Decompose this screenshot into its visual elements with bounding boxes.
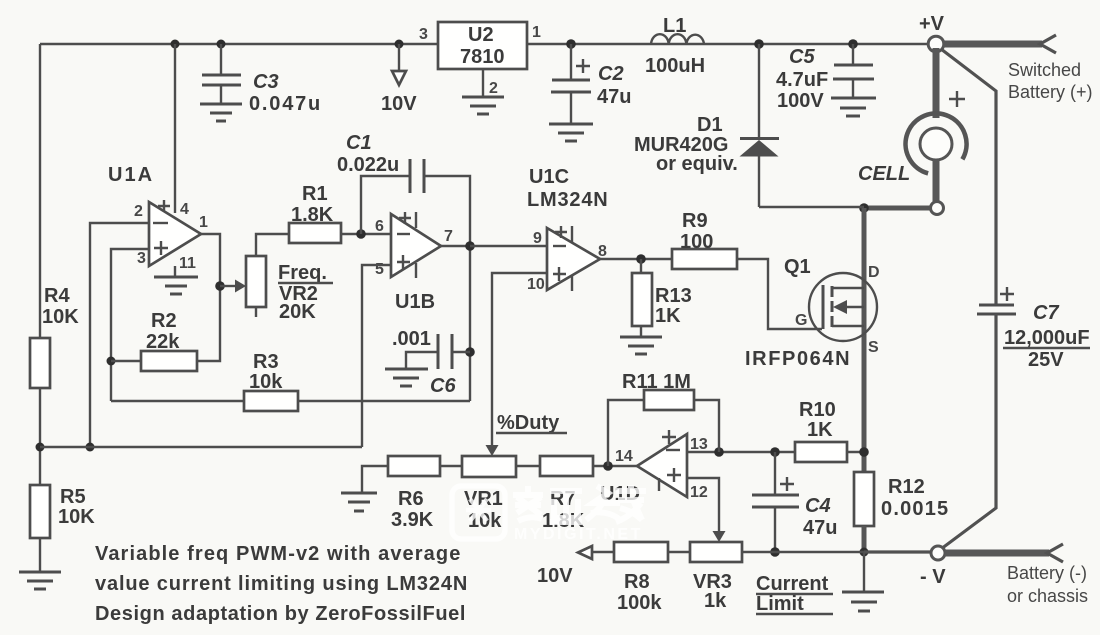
wire top 10V rail right of U2: [527, 43, 930, 45]
node junction dot C3 top: [217, 40, 226, 49]
wire thick cell bottom stub: [933, 160, 940, 202]
wire C2 top lead: [570, 44, 572, 80]
node junction C2 tap: [566, 39, 576, 49]
svg-text:4.7uF: 4.7uF: [776, 69, 828, 91]
wire C3 bottom lead: [220, 85, 222, 104]
svg-text:1: 1: [532, 24, 541, 41]
svg-text:11: 11: [179, 255, 196, 272]
wire C4 bottom lead: [774, 507, 776, 552]
svg-text:C5: C5: [789, 46, 815, 68]
svg-text:100uH: 100uH: [645, 55, 705, 77]
svg-text:R9: R9: [682, 210, 708, 232]
svg-text:or chassis: or chassis: [1007, 586, 1088, 606]
svg-text:9: 9: [533, 230, 542, 247]
resistor R13: [632, 273, 652, 326]
wire top 10V rail left: [40, 43, 438, 45]
svg-text:1K: 1K: [655, 305, 681, 327]
wire VR3 to bottom junction: [742, 551, 864, 553]
capacitor C7: [977, 305, 1016, 314]
cell outer ring: [906, 113, 967, 173]
svg-text:47u: 47u: [597, 86, 631, 108]
svg-text:R6: R6: [398, 488, 424, 510]
svg-text:3.9K: 3.9K: [391, 509, 434, 531]
node junction R11 / pin13: [714, 447, 724, 457]
node junction C5 tap: [848, 39, 858, 49]
wire R5 to ground: [39, 538, 41, 572]
wire U2 pin2 to ground: [482, 69, 484, 97]
transistor Q1 body circle: [809, 273, 877, 341]
svg-text:47u: 47u: [803, 517, 837, 539]
U1A plus input marker: [154, 241, 168, 255]
wire R3 bottom lead: [111, 400, 244, 402]
capacitor C2: [551, 80, 591, 92]
svg-text:R5: R5: [60, 486, 86, 508]
node junction Q1 drain: [859, 203, 869, 213]
wire D1 cathode lead: [758, 44, 760, 139]
wire U1A pin11 to ground: [174, 266, 176, 277]
ground below R5: [19, 572, 61, 589]
wire U1D pin12 to VR3 wiper: [687, 478, 719, 531]
svg-text:1: 1: [199, 214, 208, 231]
op-amp U1A: [149, 202, 201, 266]
node junction U1D output / R11: [603, 461, 613, 471]
wire 10V arrow stub: [398, 44, 400, 71]
wire reference rail bottom: [40, 446, 362, 448]
node junction R10 / Q1 source net: [859, 447, 869, 457]
wire R6 to VR1: [440, 465, 463, 467]
U1C plus input marker: [553, 267, 572, 291]
svg-text:1.8K: 1.8K: [291, 204, 334, 226]
svg-text:6: 6: [375, 218, 384, 235]
svg-text:value current limiting using L: value current limiting using LM324N: [95, 573, 468, 595]
svg-text:G: G: [795, 312, 807, 329]
svg-text:R1: R1: [302, 183, 328, 205]
VR3 wiper arrowhead: [713, 531, 726, 542]
svg-text:3: 3: [137, 250, 146, 267]
Q1 body arrow: [845, 306, 864, 308]
resistor R1: [289, 223, 341, 243]
ground left of R6: [341, 493, 377, 511]
svg-text:Q1: Q1: [784, 256, 811, 278]
svg-text:R12: R12: [888, 476, 925, 498]
ground below U2: [462, 97, 504, 114]
svg-text:10V: 10V: [537, 565, 573, 587]
capacitor C4: [752, 495, 799, 507]
inductor L1: [651, 34, 704, 44]
wire cell bottom to drain junction: [864, 206, 930, 211]
ground below C5: [831, 98, 876, 116]
U1A minus input marker: [153, 222, 168, 224]
U1C V+ marker: [555, 226, 572, 242]
svg-text:10K: 10K: [42, 306, 79, 328]
node junction bottom rail / R12: [860, 548, 869, 557]
wire thick battery minus stub: [945, 550, 1049, 557]
wire U1C output: [600, 258, 672, 260]
wire C5 top lead: [852, 44, 854, 65]
svg-text:+V: +V: [919, 13, 945, 35]
svg-text:C2: C2: [598, 63, 624, 85]
resistor R7: [540, 456, 593, 476]
wire R13 to ground: [640, 326, 642, 337]
wire thick switched battery stub: [943, 41, 1042, 48]
wire U1A pin2 loop to reference rail: [90, 223, 149, 447]
wire U1B output: [441, 245, 470, 247]
wire C4 top lead: [774, 452, 776, 495]
U1B minus input marker: [397, 233, 410, 235]
svg-text:1k: 1k: [704, 590, 727, 612]
svg-text:13: 13: [690, 436, 708, 453]
wire C6 left lead to ground: [406, 352, 438, 369]
wire R2 left lead: [111, 360, 141, 362]
resistor R5: [30, 485, 50, 538]
wire R12 bottom lead: [862, 526, 867, 553]
capacitor C6: [438, 334, 452, 369]
svg-text:2: 2: [134, 203, 143, 220]
ground below C3: [200, 104, 242, 121]
wire C1 right to output net: [424, 176, 470, 401]
svg-text:3: 3: [419, 26, 428, 43]
U1B V+ marker: [399, 212, 416, 228]
10V open arrow down: [392, 71, 406, 85]
wire left vertical from rail to R4: [39, 44, 41, 338]
wire U1D pin13: [687, 451, 795, 453]
svg-text:%Duty: %Duty: [497, 412, 560, 434]
Q1 gate bar: [822, 285, 825, 329]
potentiometer VR2: [246, 256, 266, 307]
wire VR1 to R7: [515, 465, 540, 467]
node junction U1A output / VR2 wiper: [215, 281, 225, 291]
svg-text:5: 5: [375, 261, 384, 278]
svg-text:1K: 1K: [807, 419, 833, 441]
wire R8 to VR3: [668, 551, 690, 553]
capacitor C1: [410, 159, 424, 193]
svg-text:R11 1M: R11 1M: [622, 371, 691, 393]
svg-text:12: 12: [690, 484, 708, 501]
svg-text:R13: R13: [655, 285, 692, 307]
potentiometer VR1: [462, 456, 516, 477]
node junction R1 / C1 / pin6: [356, 229, 366, 239]
diode D1: [740, 137, 779, 140]
op-amp U1D mirrored: [637, 434, 687, 497]
svg-text:U1C: U1C: [529, 166, 569, 188]
svg-text:U2: U2: [468, 24, 494, 46]
svg-text:0.047u: 0.047u: [249, 93, 322, 115]
svg-text:.001: .001: [392, 328, 431, 350]
op-amp U1C: [547, 228, 600, 290]
svg-text:C7: C7: [1033, 302, 1059, 324]
svg-text:Design adaptation by ZeroFossi: Design adaptation by ZeroFossilFuel: [95, 603, 466, 625]
ground below bottom rail: [842, 592, 884, 611]
wire R2 right lead up to U1A output: [197, 234, 220, 361]
svg-text:U1A: U1A: [108, 164, 154, 186]
break chevron bottom right: [1047, 544, 1063, 562]
wire R1 right lead: [341, 233, 391, 235]
watermark: [452, 485, 646, 543]
svg-text:10k: 10k: [249, 371, 283, 393]
resistor R11 feedback: [608, 400, 644, 466]
U1A V+ marker: [158, 200, 170, 212]
svg-text:Battery (+): Battery (+): [1008, 82, 1093, 102]
svg-text:R2: R2: [151, 310, 177, 332]
wire bottom junction to ground: [863, 552, 865, 592]
wire C1 branch up: [361, 176, 410, 234]
svg-text:Current: Current: [756, 573, 829, 595]
svg-text:0.0015: 0.0015: [881, 498, 949, 520]
svg-text:R4: R4: [44, 285, 70, 307]
svg-text:MYDIGIT.NET: MYDIGIT.NET: [514, 526, 643, 543]
open arrow 10V source left: [578, 546, 592, 559]
resistor R4: [30, 338, 50, 388]
resistor R6: [388, 456, 440, 476]
svg-text:4: 4: [180, 201, 189, 218]
wire R3 right lead to U1B output net: [298, 400, 470, 402]
node junction dot C3 feed on rail: [171, 40, 180, 49]
wire U1C pin10 to VR1 wiper: [492, 273, 547, 445]
wire diagonal +V to C7: [941, 49, 996, 304]
svg-text:20K: 20K: [279, 301, 316, 323]
wire VR2 bottom stub: [255, 307, 257, 317]
ground below C2: [549, 124, 593, 141]
node -V terminal circle: [931, 546, 945, 560]
wire R9 to Q1 gate: [737, 259, 822, 329]
svg-text:C4: C4: [805, 495, 831, 517]
VR2 wiper arrowhead: [235, 280, 246, 293]
svg-text:Switched: Switched: [1008, 60, 1081, 80]
svg-text:12,000uF: 12,000uF: [1004, 327, 1090, 349]
resistor R2: [141, 351, 197, 371]
wire VR2 top lead to R1: [256, 234, 289, 256]
svg-text:25V: 25V: [1028, 349, 1064, 371]
node junction pin2 rail: [86, 443, 95, 452]
svg-text:IRFP064N: IRFP064N: [745, 348, 851, 370]
Q1 channel dashes: [831, 286, 834, 327]
svg-text:D: D: [868, 264, 880, 281]
svg-text:Variable freq PWM-v2 with aver: Variable freq PWM-v2 with average: [95, 543, 461, 565]
wire D1 anode to drain junction: [759, 206, 864, 208]
svg-text:8: 8: [598, 243, 607, 260]
node junction R4/R5/rail: [36, 443, 45, 452]
svg-text:- V: - V: [920, 566, 946, 588]
capacitor C2 polarity plus: [576, 59, 590, 73]
wire ground to R6: [362, 466, 388, 493]
svg-text:14: 14: [615, 448, 633, 465]
node junction dot 10V arrow: [395, 40, 404, 49]
Q1 drain stub: [832, 287, 864, 289]
svg-text:0.022u: 0.022u: [337, 154, 399, 176]
svg-text:CELL: CELL: [858, 163, 910, 185]
svg-text:U1B: U1B: [395, 291, 435, 313]
capacitor C3: [202, 75, 241, 85]
VR1 wiper arrowhead: [486, 445, 499, 456]
resistor R12: [854, 472, 874, 526]
svg-text:10V: 10V: [381, 93, 417, 115]
resistor R10: [795, 442, 847, 462]
svg-text:C6: C6: [430, 375, 456, 397]
svg-text:7: 7: [444, 228, 453, 245]
cell inner electrode circle: [920, 128, 952, 160]
ground below R13: [620, 337, 662, 354]
svg-text:7810: 7810: [460, 46, 505, 68]
cell polarity plus: [949, 91, 965, 107]
svg-text:R3: R3: [253, 351, 279, 373]
Q1 source stub: [832, 325, 864, 327]
svg-text:100k: 100k: [617, 592, 662, 614]
svg-text:100: 100: [680, 231, 713, 253]
node junction C4 bottom: [770, 547, 780, 557]
svg-text:LM324N: LM324N: [527, 189, 609, 211]
U1D plus input marker: [659, 468, 681, 491]
svg-text:10K: 10K: [58, 506, 95, 528]
node junction C4 top: [770, 447, 780, 457]
wire U1B pin5 loop to reference rail: [362, 265, 391, 447]
U1D minus input marker: [666, 449, 680, 451]
wire U1B output to U1C pin9: [470, 245, 547, 247]
node junction R2 left: [107, 357, 116, 366]
capacitor C7 polarity plus: [1000, 287, 1014, 301]
op-amp U1B: [391, 214, 441, 277]
svg-text:C3: C3: [253, 71, 279, 93]
svg-text:10: 10: [527, 276, 545, 293]
wire C5 bottom lead: [852, 79, 854, 98]
svg-text:R8: R8: [624, 571, 650, 593]
wire bottom junction to -V: [864, 550, 931, 553]
node +V terminal circle: [928, 36, 944, 52]
resistor R3: [244, 391, 298, 411]
potentiometer VR3: [690, 542, 742, 562]
resistor R8: [614, 542, 668, 562]
node cell bottom terminal circle: [931, 202, 944, 215]
node junction U1B output: [465, 241, 475, 251]
svg-text:100V: 100V: [777, 90, 824, 112]
wire R10 right to source junction: [847, 451, 864, 453]
svg-text:D1: D1: [697, 114, 723, 136]
wire C6 right lead: [452, 351, 470, 353]
svg-text:22k: 22k: [146, 331, 180, 353]
wire thick Q1 drain-source vertical: [862, 208, 867, 472]
U1D V+ marker: [662, 430, 676, 444]
wire D1 anode lead: [758, 156, 760, 207]
wire C3 top lead: [220, 44, 222, 75]
svg-text:or equiv.: or equiv.: [656, 153, 738, 175]
resistor R9: [672, 249, 737, 269]
wire U1A pin4 supply from rail: [174, 44, 176, 213]
ground below U1A: [154, 277, 198, 294]
svg-text:C1: C1: [346, 132, 372, 154]
svg-text:L1: L1: [663, 15, 686, 37]
break chevron top right: [1040, 35, 1056, 53]
svg-text:S: S: [868, 339, 879, 356]
svg-text:Battery (-): Battery (-): [1007, 563, 1087, 583]
wire VR2 wiper: [220, 285, 235, 287]
node junction D1 top: [754, 39, 764, 49]
svg-text:2: 2: [489, 80, 498, 97]
wire arrow to R8: [592, 551, 614, 553]
wire thick cell top stub: [933, 48, 940, 118]
regulator U2 box: [438, 22, 527, 69]
wire C7 bottom lead to -V: [941, 314, 996, 549]
U1C minus input marker: [553, 245, 566, 247]
wire U1A pin3 loop down: [111, 249, 149, 401]
wire R4 to bottom reference rail: [39, 388, 41, 485]
wire R13 top lead: [640, 259, 642, 273]
node junction C6 tap: [465, 347, 475, 357]
svg-text:Freq.: Freq.: [278, 262, 327, 284]
U1B plus input marker: [397, 255, 416, 278]
svg-text:Limit: Limit: [756, 593, 804, 615]
capacitor C4 polarity plus: [780, 477, 794, 491]
capacitor C5: [833, 65, 874, 79]
wire R7 to U1D output: [593, 465, 637, 467]
node junction U1C output / R13: [636, 254, 646, 264]
svg-text:R10: R10: [799, 399, 836, 421]
ground at C6: [385, 369, 428, 386]
wire C2 bottom lead: [570, 92, 572, 124]
